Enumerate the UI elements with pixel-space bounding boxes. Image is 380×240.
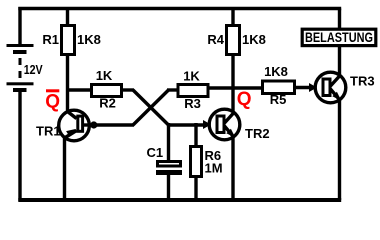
svg-text:BELASTUNG: BELASTUNG <box>305 29 373 45</box>
svg-text:TR1: TR1 <box>36 124 61 139</box>
svg-text:1K8: 1K8 <box>242 32 266 47</box>
svg-text:Q: Q <box>237 89 252 110</box>
svg-text:1K: 1K <box>183 69 200 84</box>
svg-text:1K8: 1K8 <box>264 64 288 79</box>
svg-text:1K: 1K <box>96 68 113 83</box>
svg-text:R2: R2 <box>99 96 116 111</box>
svg-text:R1: R1 <box>42 32 59 47</box>
svg-text:TR3: TR3 <box>350 74 375 89</box>
svg-text:R3: R3 <box>184 96 201 111</box>
svg-text:TR2: TR2 <box>245 126 270 141</box>
svg-text:12V: 12V <box>24 62 43 77</box>
svg-text:Q: Q <box>45 92 60 113</box>
svg-text:R5: R5 <box>270 92 287 107</box>
svg-text:C1: C1 <box>147 145 164 160</box>
svg-text:R4: R4 <box>207 32 224 47</box>
svg-text:1K8: 1K8 <box>77 32 101 47</box>
svg-text:1M: 1M <box>205 161 223 176</box>
